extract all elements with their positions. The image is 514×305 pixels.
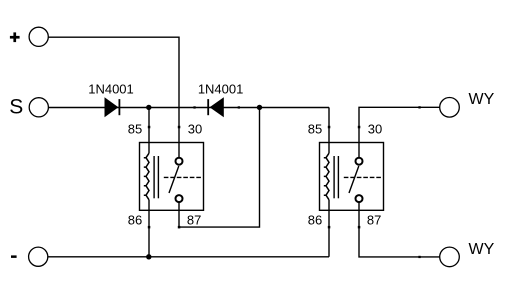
junction S/pin87 loop [257,105,262,110]
relay K2 contact bottom [356,195,363,202]
svg-text:86: 86 [308,213,322,228]
relay K1 contact top [176,158,183,165]
terminal WY bottom [440,247,460,267]
terminal + [29,27,48,46]
svg-text:85: 85 [128,122,142,137]
diode D2 1N4001 [193,97,240,117]
junction S/pin85 K1 [146,105,151,110]
label - [11,255,17,258]
svg-text:30: 30 [188,122,202,137]
relay K2 coil [324,153,329,200]
svg-text:WY: WY [469,91,495,108]
relay K2 contact top [356,158,363,165]
svg-text:87: 87 [367,212,381,227]
terminal WY top [440,98,460,118]
svg-text:86: 86 [128,213,142,228]
relay K2 link dashed [344,176,382,178]
relay K2 switch arm [349,166,359,193]
diode D1 1N4001 [105,97,121,117]
wire relay2 pin85/86 drop [328,107,330,153]
junction -/pin86 K1 [146,254,151,259]
wire S rail [48,106,329,108]
svg-text:S: S [9,96,23,119]
wire relay2 pin87 to WY bottom [359,202,440,257]
wire - rail [48,256,329,258]
terminal S [29,98,48,117]
relay K1 coil [144,153,149,200]
pin marker WY top lead [418,106,420,108]
wire relay1 coil drop (pin85 to pin86) [148,107,150,153]
svg-text:1N4001: 1N4001 [88,82,134,97]
terminal - [29,247,48,266]
relay K2 box [320,143,384,211]
svg-text:85: 85 [308,122,322,137]
svg-text:30: 30 [368,122,382,137]
pin marker WY bottom lead [418,256,420,258]
relay K1 contact bottom [176,195,183,202]
relay K1 link dashed [164,176,202,178]
svg-text:1N4001: 1N4001 [198,82,244,97]
svg-text:WY: WY [469,241,495,258]
wire + rail [48,37,179,157]
relay K1 core [153,156,155,198]
label + [10,32,20,42]
relay K1 switch arm [169,166,179,193]
wire relay2 pin30 to WY top [359,107,440,157]
svg-text:87: 87 [187,212,201,227]
wire relay1 pin87 loop to S rail [179,107,260,227]
relay K2 core [333,156,335,198]
relay K1 box [140,143,204,211]
relay K1 pin markers [148,126,181,229]
relay K2 pin markers [328,126,361,229]
